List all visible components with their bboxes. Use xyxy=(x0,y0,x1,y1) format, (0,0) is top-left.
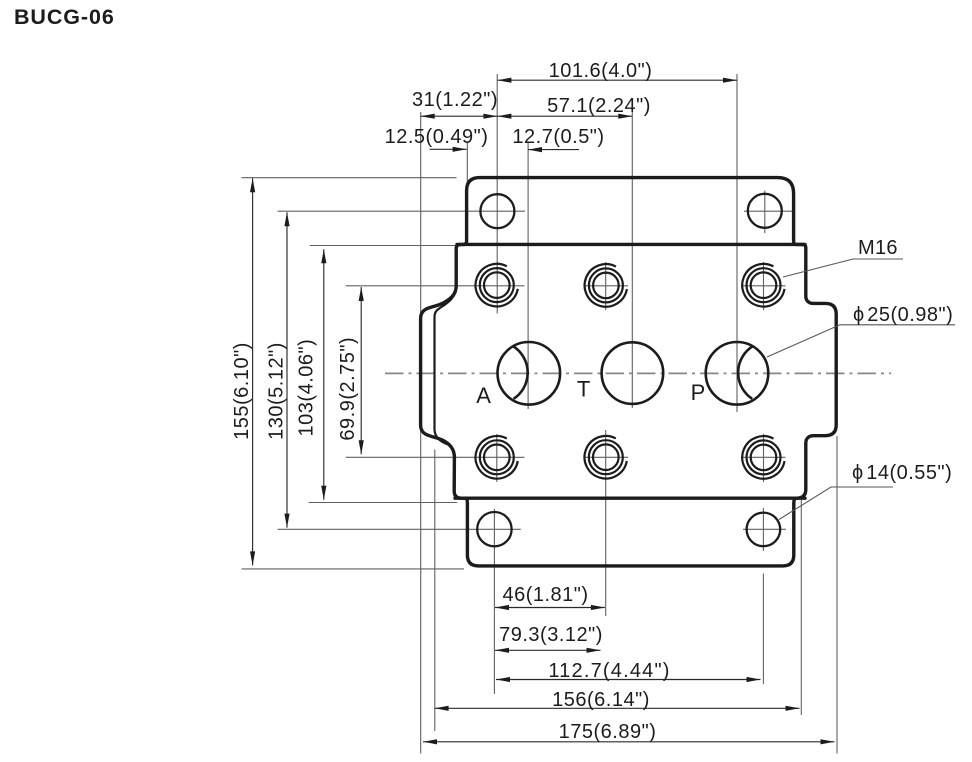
svg-text:ϕ14(0.55"): ϕ14(0.55") xyxy=(852,462,952,484)
extension line bottom bolt row left xyxy=(278,528,521,530)
arrowhead 57.1 right xyxy=(618,114,632,119)
threaded hole M16 bottom-middle xyxy=(585,436,627,479)
extension line M16 top row left xyxy=(346,285,525,287)
extension column port A xyxy=(527,143,529,410)
arrowhead 101.6 left xyxy=(497,78,511,83)
extension column right step edge xyxy=(800,500,802,715)
arrowhead 46 right xyxy=(591,605,605,610)
crosshair M16 bottom-right vertical xyxy=(763,434,765,482)
threaded hole M16 bottom-left xyxy=(476,436,518,479)
dimension line 155 xyxy=(252,178,254,565)
arrowhead 112.7 left xyxy=(496,677,510,682)
port P circle (dia 25) xyxy=(706,342,769,405)
dimension line 103 xyxy=(323,249,325,499)
port A crescent arc xyxy=(513,346,528,399)
extension column right flange face xyxy=(836,436,838,754)
arrowhead 112.7 right xyxy=(747,677,761,682)
dimension line 112.7 xyxy=(496,679,761,681)
bolt hole bottom-left (dia 14) xyxy=(477,512,511,546)
arrowhead 46 left xyxy=(495,605,509,610)
extension column right hole bottom xyxy=(762,574,764,685)
extension column left hole top xyxy=(496,74,498,314)
left flange inner contour line xyxy=(435,293,456,446)
threaded hole M16 top-left xyxy=(476,264,518,307)
tab body junction edge bottom xyxy=(455,497,805,500)
extension column port T xyxy=(631,110,633,408)
svg-text:57.1(2.24"): 57.1(2.24") xyxy=(547,95,651,117)
svg-text:31(1.22"): 31(1.22") xyxy=(412,89,498,111)
extension line top edge xyxy=(242,177,457,179)
arrowhead 103 bottom xyxy=(321,486,326,500)
svg-text:175(6.89"): 175(6.89") xyxy=(559,721,657,743)
arrowhead 31 right xyxy=(483,114,497,119)
crosshair bottom bolt hole right xyxy=(743,528,786,530)
svg-text:69.9(2.75"): 69.9(2.75") xyxy=(337,337,359,441)
dimension line 175 xyxy=(423,741,835,743)
crosshair M16 top middle xyxy=(584,285,628,287)
extension line top bolt row left xyxy=(278,210,525,212)
arrowhead 156 left xyxy=(435,706,449,711)
port A circle (dia 25) xyxy=(498,342,561,405)
svg-text:A: A xyxy=(476,383,491,408)
extension line step bottom xyxy=(309,502,458,504)
extension line M16 bottom row left xyxy=(346,456,525,458)
dimension line 69.9 xyxy=(360,287,362,454)
svg-text:130(5.12"): 130(5.12") xyxy=(266,342,288,440)
svg-text:P: P xyxy=(691,380,706,405)
extension column port P xyxy=(736,74,738,412)
arrowhead 175 right xyxy=(821,739,835,744)
svg-text:103(4.06"): 103(4.06") xyxy=(296,339,318,437)
svg-text:155(6.10"): 155(6.10") xyxy=(231,342,253,440)
horizontal centerline through ports xyxy=(385,372,891,374)
threaded hole M16 top-right xyxy=(742,264,784,307)
crosshair M16 top right xyxy=(743,285,786,287)
svg-text:79.3(3.12"): 79.3(3.12") xyxy=(499,624,603,646)
svg-text:112.7(4.44"): 112.7(4.44") xyxy=(548,660,670,682)
arrowhead 57.1 left xyxy=(497,114,511,119)
arrowhead 69.9 bottom xyxy=(359,440,364,454)
arrowhead 101.6 right xyxy=(723,78,737,83)
svg-text:12.5(0.49"): 12.5(0.49") xyxy=(385,126,489,148)
extension column left body edge xyxy=(434,450,436,732)
arrowhead 103 top xyxy=(321,249,326,263)
extension line step top xyxy=(310,245,459,247)
dimension arrow line 12.7 xyxy=(528,149,579,151)
port P crescent arc xyxy=(738,346,753,399)
svg-text:ϕ25(0.98"): ϕ25(0.98") xyxy=(853,304,953,326)
crosshair M16 bottom right xyxy=(743,456,786,458)
leader line M16 xyxy=(783,259,903,277)
svg-text:156(6.14"): 156(6.14") xyxy=(552,689,650,711)
crosshair top-right bolt vertical xyxy=(764,191,766,233)
dimension line 46 xyxy=(495,607,605,609)
threaded hole M16 bottom-right xyxy=(742,436,784,479)
extension column left flange face xyxy=(420,112,422,754)
bolt hole top-right (dia 14) xyxy=(748,194,782,228)
arrowhead 12.7 xyxy=(528,147,542,152)
dimension line 101.6 xyxy=(497,79,737,81)
arrowhead 155 bottom xyxy=(250,551,255,565)
extension column left hole bottom xyxy=(493,509,495,694)
crosshair M16 top-middle vertical xyxy=(605,262,607,310)
bolt hole top-left (dia 14) xyxy=(480,194,514,228)
arrowhead 31 left xyxy=(421,114,435,119)
leader line dia 25 xyxy=(767,325,955,357)
arrowhead 79.3 right xyxy=(587,648,601,653)
arrowhead 79.3 left xyxy=(495,648,509,653)
svg-text:T: T xyxy=(577,376,590,401)
crosshair M16 top-right vertical xyxy=(763,262,765,310)
dimension arrow line 12.5 xyxy=(430,148,467,150)
svg-text:BUCG-06: BUCG-06 xyxy=(14,5,115,29)
extension column tab left edge xyxy=(466,143,468,187)
dimension line 31 and 57.1 xyxy=(421,115,633,117)
arrowhead 175 left xyxy=(423,739,437,744)
extension line bottom edge xyxy=(242,568,464,570)
extension column middle hole bottom xyxy=(605,430,607,616)
arrowhead 156 right xyxy=(786,706,800,711)
arrowhead 155 top xyxy=(250,178,255,192)
svg-text:12.7(0.5"): 12.7(0.5") xyxy=(512,126,604,148)
plate outline xyxy=(421,178,837,566)
tab body junction edge top xyxy=(457,243,805,246)
arrowhead 130 bottom xyxy=(284,514,289,528)
arrowhead 12.5 xyxy=(453,147,467,152)
svg-text:M16: M16 xyxy=(858,237,898,259)
arrowhead 69.9 top xyxy=(359,287,364,301)
crosshair M16 bottom-left vertical xyxy=(496,434,498,482)
threaded hole M16 top-middle xyxy=(585,264,627,307)
port T circle (dia 25) xyxy=(602,342,664,404)
crosshair top bolt hole right xyxy=(744,210,792,212)
crosshair bottom-right bolt vertical xyxy=(762,508,764,551)
svg-text:46(1.81"): 46(1.81") xyxy=(502,584,588,606)
dimension line 130 xyxy=(286,212,288,527)
leader line dia 14 xyxy=(779,487,893,520)
dimension line 156 xyxy=(435,707,800,709)
bolt hole bottom-right (dia 14) xyxy=(747,513,781,547)
svg-text:101.6(4.0"): 101.6(4.0") xyxy=(549,60,653,82)
crosshair M16 bottom middle xyxy=(584,456,628,458)
arrowhead 130 top xyxy=(284,212,289,226)
dimension line 79.3 xyxy=(495,649,601,651)
